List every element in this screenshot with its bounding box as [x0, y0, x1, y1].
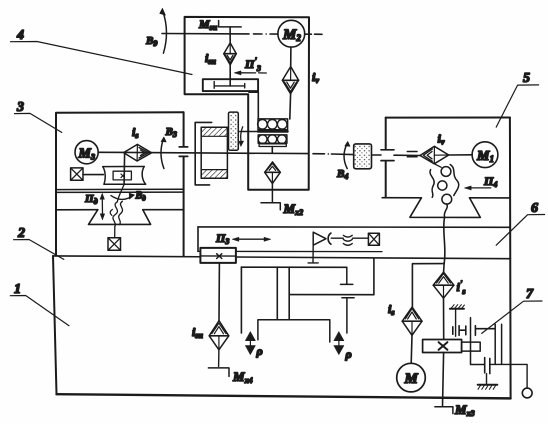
- spring squiggle: [343, 235, 352, 245]
- gear sleeve pair: [495, 324, 501, 364]
- variator under gear stack: [265, 162, 281, 184]
- svg-text:4: 4: [16, 28, 24, 43]
- label B3 rotation: [161, 126, 177, 169]
- wire: top shaft line with dash-dot: [162, 33, 322, 36]
- clutch on right hydraulic leg: [341, 267, 355, 333]
- svg-text:is: is: [388, 302, 394, 317]
- cylinder body bracket: [258, 320, 330, 342]
- clutch pair on vertical shaft: [452, 327, 454, 334]
- pressure arrows P left: [245, 332, 262, 358]
- svg-text:1: 1: [14, 282, 21, 297]
- motor M1: [472, 142, 498, 168]
- frame box 1 left edge: [53, 256, 57, 394]
- workpiece hatched band top: [201, 127, 227, 136]
- svg-text:5: 5: [523, 71, 530, 86]
- callout 1: [10, 282, 69, 326]
- coupling at box5 wall: [381, 150, 394, 161]
- svg-text:П3: П3: [215, 231, 229, 246]
- gear stack (speed change block): [258, 119, 288, 147]
- frame right edge shared by box5 / box6 / box1: [509, 118, 512, 399]
- svg-text:ρ: ρ: [256, 344, 263, 358]
- motor M3: [75, 141, 98, 164]
- svg-text:iv: iv: [438, 132, 445, 147]
- svg-text:П4: П4: [483, 174, 497, 189]
- callout 5: [496, 71, 538, 127]
- table trapezoid right: [410, 198, 480, 218]
- lead screw nut: [462, 342, 481, 351]
- wire: junction to variator i's: [443, 264, 446, 273]
- worm wheel barrel: [103, 167, 146, 185]
- svg-text:Мх3: Мх3: [454, 402, 475, 418]
- svg-text:ρ: ρ: [345, 347, 352, 361]
- hydraulic supply line: [241, 266, 346, 268]
- svg-text:П'3: П'3: [244, 56, 261, 73]
- frame box 5 top edge: [386, 117, 510, 119]
- frame box 1 bottom edge: [57, 394, 511, 398]
- ground anchor with hatching: [478, 374, 498, 390]
- wire: cam shaft down through table: [444, 217, 445, 263]
- feed slide block on line: [200, 248, 236, 263]
- support cross box3: [71, 168, 83, 180]
- lead screw block: [423, 340, 462, 353]
- gear T-coupling left: [459, 326, 466, 336]
- workpiece body: [201, 127, 227, 178]
- callout 6: [496, 201, 544, 245]
- callout 2: [14, 226, 64, 259]
- svg-text:М3: М3: [78, 147, 95, 162]
- svg-text:В9: В9: [145, 35, 157, 48]
- wire: main horizontal spindle axis: [98, 152, 472, 155]
- variator i_v (box 5, horizontal): [420, 146, 449, 164]
- wire: gear-block hanger from box 4 bottom: [249, 92, 258, 119]
- throttle valve: [313, 232, 343, 245]
- wire: support to worm: [83, 174, 103, 176]
- frame box 3 right edge (wall with shaft gap): [183, 112, 185, 256]
- coupling bars (=): [407, 152, 417, 157]
- svg-text:Пд: Пд: [84, 193, 98, 206]
- wire: wheel shaft to gear stack: [240, 131, 258, 133]
- callout 7: [482, 287, 542, 333]
- svg-text:Мх2: Мх2: [283, 201, 304, 217]
- gear T-coupling right: [475, 326, 495, 336]
- workpiece hatched band bottom: [201, 170, 227, 179]
- grinding wheel B4 (right): [354, 144, 372, 169]
- wire: i_s to motor M: [410, 335, 413, 363]
- label B_d rotation arc: [111, 191, 146, 203]
- cam and follower rollers: [430, 164, 459, 218]
- support cross (valve line): [368, 233, 379, 245]
- variator i_zn (top): [224, 43, 237, 65]
- label P'3 with arrow: [234, 56, 266, 75]
- svg-text:М: М: [404, 371, 419, 387]
- frame box 3 (left headstock) top and left edge: [56, 112, 184, 256]
- frame box 6 channel bottom: [198, 250, 382, 252]
- wire: valve stem to anchor: [308, 245, 318, 263]
- svg-text:В4: В4: [336, 168, 348, 181]
- grinding wheel (small, top): [229, 112, 239, 150]
- wire: slide block to variator i_zn: [218, 263, 220, 321]
- wire: screw to M_x3: [443, 353, 444, 407]
- variator i_s (bottom): [402, 307, 422, 335]
- wire: output to handwheel: [490, 364, 527, 388]
- coupling at box3 wall: [179, 147, 188, 157]
- wire: M2 to variator: [290, 47, 292, 66]
- svg-text:iv: iv: [312, 70, 319, 85]
- variator i_v (under M2): [282, 67, 298, 94]
- piston rod pair: [277, 267, 289, 320]
- frame box 1 top long line: [53, 256, 510, 259]
- svg-text:2: 2: [17, 226, 25, 241]
- callout 4: [11, 28, 193, 75]
- fixed fork with hatch flag: [450, 305, 465, 337]
- label B4 rotation: [336, 141, 350, 181]
- svg-text:iзн: iзн: [205, 51, 216, 66]
- label B9 rotation: [145, 8, 166, 53]
- moment symbol M_x2: [261, 184, 303, 217]
- wire: branch from P3 line: [289, 259, 374, 295]
- frame box 5 left edge (wall with shaft gap): [385, 118, 387, 198]
- handwheel circle: [522, 388, 532, 398]
- motor M (bottom): [397, 363, 426, 392]
- chuck C-bracket: [195, 122, 212, 184]
- svg-text:iзн: iзн: [192, 325, 203, 340]
- wire: variator to gear stack: [289, 94, 292, 119]
- carriage slide (top box): [203, 79, 258, 91]
- label P3 with double arrow: [215, 231, 271, 246]
- lower clutch coupling: [485, 358, 490, 374]
- frame box 4 (wheelhead housing, top): [185, 17, 309, 190]
- rotation arrow at wheel: [239, 127, 244, 147]
- wire: squiggle to cross: [352, 237, 368, 239]
- wire: stem variator to carriage: [229, 65, 231, 86]
- hydraulic cylinder left leg: [240, 267, 242, 333]
- pressure arrows P right: [334, 332, 352, 361]
- wire: i's to lead screw: [443, 298, 445, 339]
- moment symbol M_x4: [208, 350, 252, 385]
- variator i's: [433, 272, 454, 298]
- svg-text:Мх4: Мх4: [232, 369, 253, 385]
- svg-text:Мзи: Мзи: [198, 17, 218, 32]
- svg-text:В3: В3: [165, 126, 177, 139]
- callout 3: [15, 100, 62, 132]
- wire: stem M_zi to variator: [229, 27, 231, 43]
- variator i_zn (bottom): [209, 321, 229, 350]
- wire: i_s branch from cam shaft: [412, 264, 444, 308]
- motor M2: [278, 20, 305, 47]
- label P_d with vertical arrow: [84, 193, 105, 220]
- svg-text:i's: i's: [457, 279, 466, 296]
- table trapezoid left: [89, 210, 151, 225]
- frame box 6 channel top: [198, 226, 510, 228]
- moment symbol M_x3: [435, 402, 475, 418]
- frame box 6 channel left edge: [197, 227, 199, 252]
- wire: worm vertical shaft: [123, 153, 126, 184]
- moment symbol M_zi: [198, 17, 241, 32]
- frame box 5 bottom shoulders: [382, 197, 510, 199]
- svg-text:3: 3: [16, 100, 24, 115]
- svg-text:is: is: [132, 125, 138, 140]
- gear shaft vertical: [471, 318, 484, 365]
- svg-text:М2: М2: [282, 27, 301, 43]
- support cross below table: [108, 238, 121, 251]
- svg-text:М1: М1: [476, 149, 494, 164]
- wire: gear stack to main axis: [271, 147, 273, 154]
- svg-text:6: 6: [531, 201, 538, 216]
- screw squiggle (vertical feed screw): [110, 184, 124, 237]
- label P4 with arrow: [465, 174, 498, 190]
- frame box 3 bottom double line: [56, 189, 184, 192]
- variator i_s (box 3, horizontal): [124, 144, 152, 161]
- svg-text:7: 7: [526, 287, 534, 302]
- guideway lines box 2: [56, 209, 184, 211]
